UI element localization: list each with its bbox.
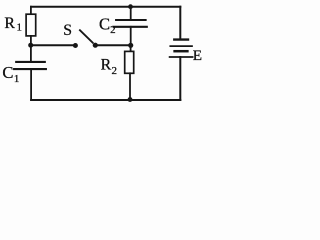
wire middle right segment — [97, 44, 131, 46]
node junction D (bottom wire / R2) — [128, 97, 133, 102]
battery E — [170, 40, 193, 57]
resistor R2 — [125, 45, 134, 99]
capacitor C2 — [114, 7, 147, 46]
wire right branch bottom — [179, 57, 181, 100]
switch S right contact — [93, 43, 98, 48]
node junction B (switch/C2/R2) — [128, 43, 133, 48]
wire bottom — [31, 99, 180, 101]
node junction C (top wire / C2) — [128, 4, 133, 9]
wire top — [31, 6, 180, 8]
capacitor C1 — [14, 45, 46, 100]
wire R1 bottom stub — [30, 36, 32, 45]
wire R1 top stub — [30, 7, 32, 15]
wire middle left segment — [31, 44, 75, 46]
switch S lever — [80, 30, 93, 43]
wire right branch top — [179, 7, 181, 39]
node junction A (R1/C1/switch) — [28, 43, 33, 48]
svg-text:E: E — [193, 47, 202, 64]
switch S left contact — [73, 43, 78, 48]
resistor R1 — [26, 14, 36, 36]
svg-text:S: S — [63, 22, 72, 39]
